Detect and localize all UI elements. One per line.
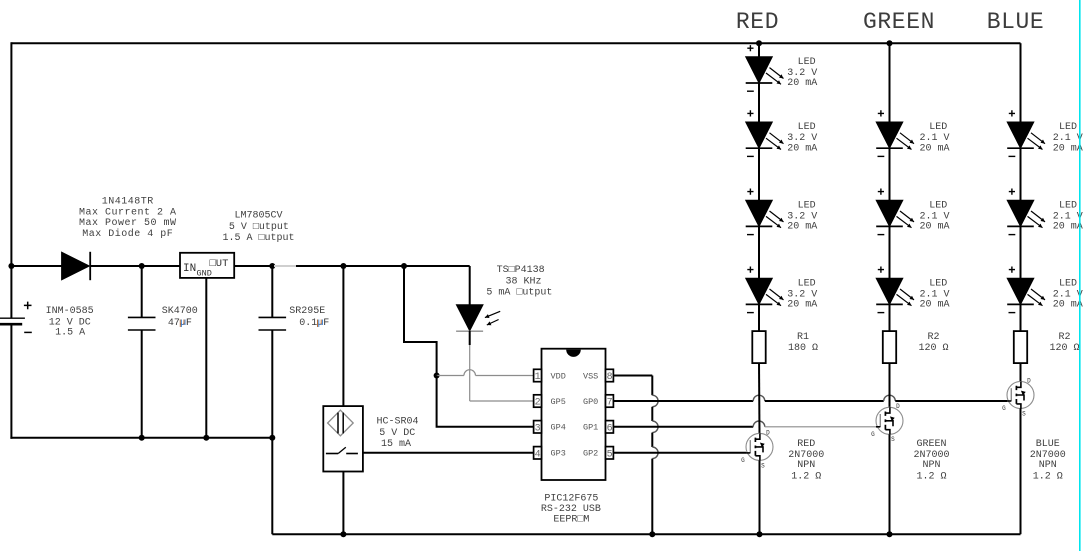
wire diode cathode to regulator IN (90, 265, 180, 267)
LED value label (1053, 278, 1083, 310)
svg-text:R2: R2 (1058, 332, 1070, 343)
svg-text:6: 6 (607, 423, 613, 434)
IC pin 7 box (606, 395, 614, 407)
node 5V output junction (269, 263, 275, 269)
LED light arrows (766, 211, 784, 228)
svg-text:1.5 A: 1.5 A (55, 327, 85, 338)
svg-text:LM7805CV: LM7805CV (234, 210, 282, 221)
svg-text:G: G (1002, 405, 1006, 412)
resistor R2 label (918, 332, 948, 354)
svg-text:RED: RED (736, 9, 779, 35)
IC pin 4 box (534, 447, 542, 459)
transistor RED 2N7000 body (746, 433, 773, 460)
svg-text:20 mA: 20 mA (919, 143, 949, 154)
wire 5V rail light segment (274, 265, 296, 267)
wire GREEN column segment 3 (889, 226, 891, 278)
wire ground rail bottom (272, 533, 1020, 535)
svg-text:2: 2 (535, 398, 541, 409)
svg-text:R1: R1 (797, 332, 809, 343)
node RED source ground junction (757, 531, 763, 537)
svg-text:5: 5 (607, 449, 613, 460)
LED 2.1 V 20 mA (1007, 122, 1034, 148)
svg-text:TS□P4138: TS□P4138 (497, 265, 545, 276)
LED light arrows (766, 289, 784, 306)
svg-text:PIC12F675: PIC12F675 (544, 494, 598, 505)
transistor RED internal symbol (746, 433, 765, 460)
cursor crosshair line (1079, 0, 1081, 551)
svg-text:1.2 Ω: 1.2 Ω (791, 471, 821, 482)
LED light arrows (766, 68, 784, 85)
svg-text:GND: GND (197, 269, 212, 279)
svg-text:1.2 Ω: 1.2 Ω (916, 471, 946, 482)
wire RED column segment 4 (758, 226, 760, 278)
svg-text:20 mA: 20 mA (787, 300, 817, 311)
svg-text:Max Diode 4 pF: Max Diode 4 pF (82, 228, 173, 240)
svg-text:120 Ω: 120 Ω (1049, 343, 1079, 354)
regulator LM7805CV body (180, 253, 234, 278)
wire RED column segment 2 (758, 83, 760, 122)
LED light arrows (897, 289, 915, 306)
LED 3.2 V 20 mA (746, 122, 773, 148)
wire BLUE column segment 1 (1020, 43, 1022, 122)
capacitor SK4700 label (162, 306, 198, 329)
wire HC-SR04 top lead (342, 266, 344, 406)
resistor R1 180 Ω (752, 331, 765, 363)
wire GREEN column segment 2 (889, 148, 891, 200)
svg-text:7: 7 (607, 398, 613, 409)
wire RED source to ground (759, 460, 761, 534)
wire TSOP output to GP5 horizontal (470, 400, 534, 402)
node SR295E bottom junction (269, 435, 275, 441)
LED value label (787, 57, 817, 89)
node VSS ground junction (649, 531, 655, 537)
svg-text:S: S (761, 462, 765, 469)
IR receiver TSOP4138 label (486, 265, 552, 298)
svg-text:38 KHz: 38 KHz (505, 276, 541, 287)
node SK4700 top junction (139, 263, 145, 269)
svg-text:HC-SR04: HC-SR04 (376, 417, 418, 428)
node SK4700 bottom junction (139, 435, 145, 441)
wire 5V branch to VDD (404, 266, 437, 376)
wire SK4700 bottom lead (141, 330, 143, 438)
svg-text:LED: LED (1059, 200, 1077, 211)
wire RED LED string to resistor (758, 304, 760, 331)
LED anode + mark (1009, 189, 1015, 195)
svg-text:IN: IN (183, 263, 196, 275)
svg-text:20 mA: 20 mA (787, 143, 817, 154)
node HC-SR04 5V junction (340, 263, 346, 269)
node HC-SR04 ground junction (340, 531, 346, 537)
svg-text:GP2: GP2 (583, 449, 598, 459)
LED value label (919, 122, 949, 154)
svg-text:S: S (1022, 410, 1026, 417)
transistor BLUE internal symbol (1007, 382, 1026, 409)
svg-text:F: F (186, 318, 192, 329)
LED anode + mark (747, 110, 753, 116)
svg-text:GP3: GP3 (551, 449, 566, 459)
regulator pin names (183, 258, 228, 279)
wire HC-SR04 ground lead (342, 472, 344, 535)
wire 5V rail (296, 265, 470, 267)
resistor R2 120 Ω (883, 331, 896, 363)
svg-text:3: 3 (535, 423, 541, 434)
wire TSOP feed drop (469, 266, 471, 305)
LED 3.2 V 20 mA (746, 57, 773, 83)
svg-text:GP5: GP5 (551, 397, 566, 407)
svg-text:0.1: 0.1 (299, 318, 317, 329)
svg-text:8: 8 (607, 372, 613, 383)
svg-text:GREEN: GREEN (916, 439, 946, 450)
wire BLUE LED string to resistor (1020, 304, 1022, 331)
IC pin 3 box (534, 421, 542, 433)
LED cathode - mark (878, 312, 885, 314)
capacitor SR295E label (289, 306, 329, 329)
IC PIC12F675 body (542, 349, 606, 480)
transistor BLUE 2N7000 label (1030, 439, 1066, 482)
LED anode + mark (747, 45, 753, 51)
wire BLUE column segment 2 (1020, 148, 1022, 200)
svg-text:S: S (891, 436, 895, 443)
wire HC-SR04 output to GP3 (363, 452, 534, 454)
resistor R2 label (1049, 332, 1079, 354)
regulator LM7805CV label (222, 210, 294, 244)
power supply + mark (24, 302, 32, 310)
capacitor SK4700 47µF (128, 317, 156, 330)
sensor HC-SR04 body (323, 406, 363, 471)
svg-text:D: D (896, 403, 900, 410)
svg-text:180 Ω: 180 Ω (788, 343, 818, 354)
wire GP2 to RED gate (613, 452, 746, 454)
LED cathode - mark (747, 312, 754, 314)
svg-text:1.2 Ω: 1.2 Ω (1033, 471, 1063, 482)
transistor GREEN internal symbol (876, 407, 895, 434)
svg-text:20 mA: 20 mA (787, 78, 817, 89)
wire TSOP output to GP5 vertical (469, 345, 471, 401)
transistor GREEN pin letters (871, 403, 900, 443)
svg-text:NPN: NPN (1039, 460, 1057, 471)
svg-text:LED: LED (1059, 278, 1077, 289)
sensor HC-SR04 label (376, 417, 418, 450)
wire SR295E top lead (271, 266, 273, 317)
LED 2.1 V 20 mA (1007, 278, 1034, 304)
svg-text:SK4700: SK4700 (162, 306, 198, 317)
svg-text:LED: LED (798, 57, 816, 68)
svg-text:GP4: GP4 (551, 423, 566, 433)
svg-text:LED: LED (798, 278, 816, 289)
svg-text:VSS: VSS (583, 371, 598, 381)
wire SR295E bottom lead (271, 330, 273, 438)
LED 2.1 V 20 mA (1007, 200, 1034, 226)
sensor HC-SR04 switch symbol (326, 447, 358, 453)
node GREEN source ground junction (887, 531, 893, 537)
svg-text:EEPR□M: EEPR□M (553, 515, 589, 526)
IC pin 2 box (534, 395, 542, 407)
diode 1N4148TR (62, 252, 91, 280)
power supply - mark (24, 331, 32, 333)
wire RED column segment 1 (758, 43, 760, 57)
LED light arrows (1028, 133, 1046, 150)
LED light arrows (1028, 211, 1046, 228)
LED anode + mark (878, 267, 884, 273)
wire GP0 to BLUE gate with hops (613, 395, 1007, 401)
LED 3.2 V 20 mA (746, 200, 773, 226)
node supply/diode junction (8, 263, 14, 269)
transistor GREEN 2N7000 body (876, 407, 903, 434)
svg-text:G: G (741, 457, 745, 464)
svg-text:INM-0585: INM-0585 (46, 306, 94, 317)
IC PIC12F675 label (541, 494, 601, 526)
svg-text:Max Current 2 A: Max Current 2 A (79, 207, 177, 218)
node GREEN column top junction (887, 40, 893, 46)
LED cathode - mark (747, 90, 754, 92)
wire ground rail left (10, 437, 272, 439)
transistor BLUE pin letters (1002, 377, 1031, 417)
wire R2 to BLUE drain (1020, 363, 1022, 381)
svg-text:20 mA: 20 mA (1053, 222, 1083, 233)
IR receiver incoming light arrows (485, 311, 500, 325)
wire ground rail drop (271, 438, 273, 534)
svg-text:F: F (323, 318, 329, 329)
wire VDD branch to GP4 (437, 376, 534, 427)
IC pin 1 box (534, 369, 542, 381)
LED light arrows (897, 133, 915, 150)
svg-text:5 V DC: 5 V DC (379, 428, 415, 439)
svg-text:□UT: □UT (210, 258, 229, 270)
transistor RED 2N7000 label (788, 439, 824, 482)
svg-text:20 mA: 20 mA (919, 222, 949, 233)
resistor R1 label (788, 332, 818, 354)
svg-text:15 mA: 15 mA (381, 439, 411, 450)
wire regulator OUT to 5V node (234, 265, 272, 267)
svg-text:LED: LED (929, 122, 947, 133)
svg-text:20 mA: 20 mA (1053, 300, 1083, 311)
transistor BLUE 2N7000 body (1007, 382, 1034, 409)
LED cathode - mark (878, 234, 885, 236)
LED value label (787, 278, 817, 310)
svg-text:LED: LED (929, 200, 947, 211)
wire 12V top rail (11, 42, 1020, 44)
wire R1 to RED drain (758, 363, 761, 433)
LED anode + mark (1009, 267, 1015, 273)
wire RED column segment 3 (758, 148, 760, 200)
svg-text:1.5 A □utput: 1.5 A □utput (222, 233, 294, 244)
svg-text:GP0: GP0 (583, 397, 598, 407)
LED anode + mark (747, 189, 753, 195)
LED anode + mark (747, 267, 753, 273)
wire left supply drop (10, 42, 12, 318)
svg-text:BLUE: BLUE (987, 9, 1045, 35)
svg-text:RS-232 USB: RS-232 USB (541, 504, 601, 515)
node regulator GND junction (203, 435, 209, 441)
LED light arrows (766, 133, 784, 150)
LED 2.1 V 20 mA (876, 122, 903, 148)
LED value label (1053, 122, 1083, 154)
IR receiver TSOP4138 LED symbol (456, 305, 483, 331)
LED cathode - mark (1009, 155, 1016, 157)
LED value label (919, 278, 949, 310)
svg-text:R2: R2 (927, 332, 939, 343)
svg-text:1: 1 (535, 372, 541, 383)
wire GREEN LED string to resistor (889, 304, 891, 331)
wire regulator GND lead (205, 278, 207, 438)
svg-text:NPN: NPN (922, 460, 940, 471)
LED cathode - mark (747, 155, 754, 157)
svg-text:RED: RED (797, 439, 815, 450)
svg-text:4: 4 (535, 449, 541, 460)
LED value label (787, 200, 817, 232)
wire GREEN source to ground (889, 434, 891, 534)
diode 1N4148TR label (79, 196, 177, 240)
wire BLUE column segment 3 (1020, 226, 1022, 278)
node TSOP branch junction (401, 263, 407, 269)
LED light arrows (897, 211, 915, 228)
svg-text:NPN: NPN (797, 460, 815, 471)
LED value label (787, 122, 817, 154)
transistor RED pin letters (741, 429, 770, 469)
svg-text:5 V □utput: 5 V □utput (229, 222, 289, 233)
transistor GREEN 2N7000 label (913, 439, 949, 482)
node RED column top junction (756, 40, 762, 46)
wire TSOP output lead (469, 331, 471, 345)
LED anode + mark (878, 189, 884, 195)
LED cathode - mark (878, 155, 885, 157)
wire GP1 to GREEN gate with hop (613, 421, 876, 427)
sensor HC-SR04 diamond symbol (328, 410, 354, 436)
svg-text:GREEN: GREEN (863, 9, 935, 35)
wire supply to diode anode (11, 265, 61, 267)
wire battery negative drop (10, 324, 12, 439)
svg-text:Max Power 50 mW: Max Power 50 mW (79, 218, 177, 229)
svg-text:120 Ω: 120 Ω (918, 343, 948, 354)
svg-text:20 mA: 20 mA (919, 300, 949, 311)
svg-text:VDD: VDD (551, 371, 566, 381)
wire VSS to ground with hops (613, 376, 658, 535)
svg-text:LED: LED (1059, 122, 1077, 133)
LED anode + mark (878, 110, 884, 116)
svg-text:1N4148TR: 1N4148TR (102, 196, 154, 207)
LED 2.1 V 20 mA (876, 200, 903, 226)
IC notch (566, 350, 581, 357)
wire SK4700 top lead (141, 266, 143, 317)
svg-text:BLUE: BLUE (1036, 439, 1060, 450)
svg-text:SR295E: SR295E (289, 306, 325, 317)
LED value label (919, 200, 949, 232)
svg-text:LED: LED (798, 122, 816, 133)
power supply INM-0585 battery symbol (0, 318, 25, 324)
wire GREEN column segment 1 (889, 43, 891, 122)
LED cathode - mark (747, 234, 754, 236)
wire R2 to GREEN drain (889, 363, 891, 407)
LED value label (1053, 200, 1083, 232)
wire BLUE source to ground (1020, 409, 1022, 535)
wire VDD into pin 1 with hop (437, 370, 534, 376)
IC pin 6 box (606, 421, 614, 433)
LED cathode - mark (1009, 234, 1016, 236)
LED 3.2 V 20 mA (746, 278, 773, 304)
IC pin 5 box (606, 447, 614, 459)
node VDD junction (434, 373, 440, 379)
svg-text:G: G (871, 431, 875, 438)
capacitor SR295E 0.1µF (259, 317, 287, 330)
power supply INM-0585 label (46, 306, 94, 338)
svg-text:20 mA: 20 mA (1053, 143, 1083, 154)
svg-text:LED: LED (929, 278, 947, 289)
LED light arrows (1028, 289, 1046, 306)
svg-text:GP1: GP1 (583, 423, 598, 433)
LED anode + mark (1009, 110, 1015, 116)
svg-text:D: D (766, 429, 770, 436)
IC pin 8 box (606, 369, 614, 381)
svg-text:20 mA: 20 mA (787, 222, 817, 233)
resistor R2 120 Ω (1014, 331, 1027, 363)
svg-text:5 mA □utput: 5 mA □utput (486, 287, 552, 298)
LED cathode - mark (1009, 312, 1016, 314)
svg-text:LED: LED (798, 200, 816, 211)
svg-text:D: D (1027, 377, 1031, 384)
LED 2.1 V 20 mA (876, 278, 903, 304)
